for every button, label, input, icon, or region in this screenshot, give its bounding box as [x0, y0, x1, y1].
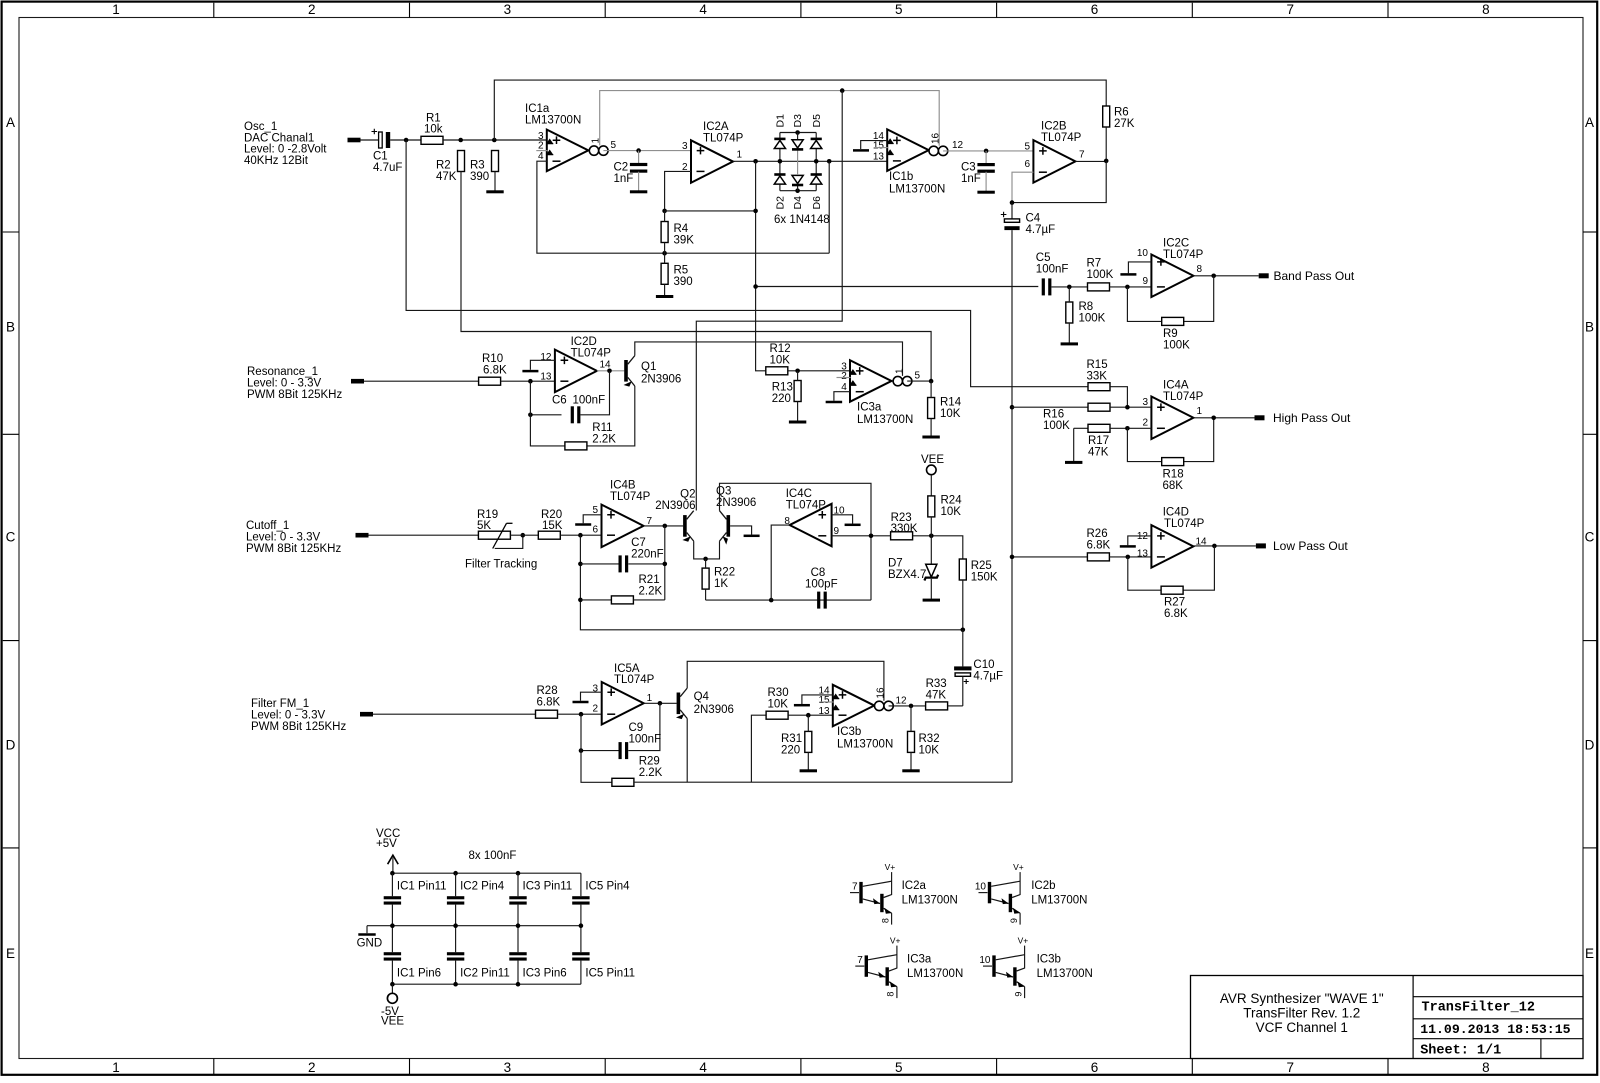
wire IC3a output	[907, 380, 931, 382]
diode D2	[774, 173, 785, 176]
wire IC2A inverting input to R4	[665, 171, 691, 211]
svg-text:DAC Chanal1: DAC Chanal1	[244, 132, 314, 144]
svg-text:IC2 Pin11: IC2 Pin11	[460, 967, 510, 979]
svg-text:IC2a: IC2a	[902, 880, 927, 892]
wire IC3b output	[889, 705, 926, 707]
svg-text:2: 2	[538, 140, 544, 151]
resistor R4	[661, 222, 668, 243]
svg-text:8: 8	[1482, 1060, 1490, 1075]
node Q1 base junction	[607, 369, 612, 374]
node C6 left junction	[528, 413, 533, 418]
wire IC4C plus ground	[832, 515, 853, 524]
wire IC2D input vertical	[530, 381, 565, 446]
wire R26 to IC4D	[1109, 556, 1151, 558]
svg-text:1: 1	[112, 1060, 120, 1075]
wire C4 frequency bus vertical	[1011, 230, 1013, 782]
svg-text:IC2C: IC2C	[1163, 237, 1189, 249]
svg-text:TransFilter_12: TransFilter_12	[1422, 1001, 1535, 1016]
svg-text:8x 100nF: 8x 100nF	[469, 850, 517, 862]
wire IC2B output	[1075, 160, 1106, 162]
wire R24 to node	[930, 517, 932, 536]
node mid bus junction	[516, 923, 521, 928]
resistor R22	[702, 568, 709, 589]
svg-text:10K: 10K	[940, 408, 961, 420]
svg-text:100K: 100K	[1079, 312, 1106, 324]
svg-text:TL074P: TL074P	[614, 674, 655, 686]
svg-text:E: E	[1585, 946, 1594, 961]
wire IC2C feedback R9	[1127, 287, 1161, 322]
buffer transistor pair IC2a	[850, 862, 895, 925]
resistor R26	[1087, 553, 1109, 561]
svg-text:TL074P: TL074P	[610, 491, 651, 503]
svg-text:4: 4	[538, 151, 544, 162]
svg-text:R21: R21	[639, 574, 660, 586]
wire C5 to R7	[1052, 286, 1088, 288]
svg-text:LM13700N: LM13700N	[837, 739, 893, 751]
wire Q4 emitter to frequency bus	[686, 719, 688, 783]
ground C3	[977, 191, 994, 194]
node C2 junction	[636, 148, 641, 153]
svg-text:15: 15	[873, 140, 885, 151]
svg-text:R25: R25	[971, 560, 992, 572]
svg-text:Filter FM_1: Filter FM_1	[251, 698, 309, 710]
svg-text:33K: 33K	[1087, 371, 1108, 383]
wire R10 to IC2D	[501, 380, 555, 382]
wire R21 C7 to output node	[664, 526, 666, 600]
node R8 junction	[1067, 285, 1072, 290]
svg-text:220: 220	[772, 393, 791, 405]
ground IC4B pin5	[575, 523, 591, 526]
node bias net junction	[840, 88, 845, 93]
output stub High Pass Out	[1255, 415, 1265, 420]
svg-text:IC5A: IC5A	[614, 663, 640, 675]
wire R17 ground leg	[1073, 428, 1075, 461]
ground IC3a pin4	[826, 401, 843, 404]
svg-text:C: C	[1585, 530, 1595, 545]
wire R4 node to cutoff node	[665, 210, 756, 212]
input stub Filter FM_1	[360, 712, 373, 717]
svg-text:10k: 10k	[424, 124, 443, 136]
svg-text:Level: 0 - 3.3V: Level: 0 - 3.3V	[246, 532, 320, 544]
ground R17	[1065, 461, 1082, 464]
wire R30 input leg	[751, 715, 766, 782]
transistor Q2 2N3906	[683, 515, 687, 537]
input stub Resonance_1	[351, 379, 364, 384]
capacitor C3	[985, 151, 987, 164]
wire C1 node down to HP summing line	[406, 140, 1088, 387]
node IC3b output junction	[909, 704, 914, 709]
node top bus junction	[390, 871, 395, 876]
svg-text:R28: R28	[537, 685, 558, 697]
wire IC2C output	[1193, 275, 1258, 277]
svg-text:R26: R26	[1087, 528, 1108, 540]
resistor R3	[492, 151, 499, 172]
resistor R2	[458, 151, 465, 172]
resistor R17	[1088, 424, 1110, 432]
svg-text:C6: C6	[552, 395, 567, 407]
svg-text:R4: R4	[674, 223, 689, 235]
svg-text:2: 2	[592, 703, 598, 714]
capacitor C7	[580, 563, 618, 565]
node mid bus junction	[579, 923, 584, 928]
frame row ticks	[3, 231, 19, 233]
buffer transistor pair IC3a buffer	[855, 936, 900, 999]
wire IC1a feedback line	[537, 161, 829, 253]
svg-text:6.8K: 6.8K	[1164, 608, 1188, 620]
wire C1 to R1	[390, 139, 421, 141]
svg-text:R5: R5	[674, 265, 689, 277]
svg-text:330K: 330K	[891, 523, 918, 535]
svg-text:100K: 100K	[1163, 340, 1190, 352]
wire bias net to Q2 collector	[696, 91, 842, 511]
node IC4B output junction	[663, 524, 668, 529]
node IC2C inverting junction	[1125, 285, 1130, 290]
wire Q3 collector loop	[720, 483, 872, 600]
svg-text:R13: R13	[772, 382, 793, 394]
ground R13	[789, 421, 806, 424]
wire R25 to bottom bus	[962, 580, 964, 630]
svg-text:TL074P: TL074P	[1041, 132, 1082, 144]
wire R1 to IC1a input	[443, 139, 547, 141]
svg-text:R30: R30	[768, 687, 789, 699]
resistor R12	[766, 367, 788, 375]
svg-text:4.7µF: 4.7µF	[973, 671, 1003, 683]
svg-text:C: C	[6, 530, 16, 545]
svg-text:7: 7	[1079, 149, 1085, 160]
wire R20 to IC4B	[560, 534, 601, 536]
svg-text:R15: R15	[1087, 359, 1108, 371]
wire IC3a minus ground	[834, 392, 850, 401]
node mid bus junction	[390, 923, 395, 928]
svg-text:D5: D5	[811, 114, 823, 128]
node bottom bus junction 0	[390, 982, 395, 987]
transistor Q4 2N3906	[677, 693, 681, 715]
svg-text:IC4A: IC4A	[1163, 379, 1189, 391]
svg-text:13: 13	[873, 152, 885, 163]
wire IC4D feedback R27	[1128, 557, 1161, 590]
svg-text:+5V: +5V	[376, 838, 397, 850]
svg-text:D6: D6	[811, 196, 823, 210]
node IC5A minus junction	[579, 712, 584, 717]
wire R15 to IC4A plus node	[1110, 387, 1127, 408]
svg-text:LM13700N: LM13700N	[857, 414, 913, 426]
wire R6 to IC2B output	[1105, 127, 1107, 161]
svg-text:R3: R3	[470, 159, 485, 171]
svg-text:10K: 10K	[768, 698, 789, 710]
svg-text:220nF: 220nF	[631, 549, 664, 561]
node R4 top	[662, 209, 667, 214]
svg-text:15: 15	[818, 695, 830, 706]
svg-text:IC2B: IC2B	[1041, 121, 1067, 133]
ground D7	[923, 599, 940, 602]
svg-text:12: 12	[540, 352, 552, 363]
wire IC4A feedback R18	[1127, 428, 1161, 461]
wire R23 to D7 node	[913, 536, 963, 559]
wire bus to R16	[1012, 406, 1088, 408]
node C1 output junction	[404, 138, 409, 143]
wire R17 input	[1074, 427, 1088, 429]
svg-text:7: 7	[1286, 2, 1294, 17]
wire diode mid to feedback	[828, 161, 830, 253]
capacitor C8	[817, 592, 820, 609]
capacitor decoupling bottom 2	[455, 926, 457, 953]
svg-text:C2: C2	[614, 161, 629, 173]
svg-text:VEE: VEE	[921, 454, 944, 466]
zener diode D7 BZX4.7	[930, 536, 932, 564]
svg-text:R22: R22	[714, 567, 735, 579]
svg-text:R1: R1	[426, 112, 441, 124]
svg-text:R17: R17	[1088, 435, 1109, 447]
svg-text:1: 1	[737, 150, 743, 161]
wire IC5A plus ground	[581, 692, 602, 701]
svg-text:IC2b: IC2b	[1031, 880, 1055, 892]
svg-text:Q4: Q4	[694, 691, 710, 703]
svg-text:A: A	[6, 115, 15, 130]
svg-text:12: 12	[1137, 531, 1149, 542]
diode D4	[792, 175, 803, 183]
svg-text:VCF Channel 1: VCF Channel 1	[1256, 1020, 1348, 1035]
svg-text:8: 8	[1197, 264, 1203, 275]
svg-text:10: 10	[1137, 248, 1149, 259]
input stub Cutoff_1	[356, 533, 369, 538]
svg-text:IC2D: IC2D	[571, 336, 597, 348]
svg-text:IC5 Pin11: IC5 Pin11	[585, 967, 635, 979]
resistor R5	[661, 263, 668, 284]
resistor R30	[766, 711, 788, 719]
svg-text:13: 13	[818, 706, 830, 717]
svg-text:C4: C4	[1026, 212, 1041, 224]
wire IC1a diode bias strikethrough	[536, 150, 547, 152]
svg-text:IC1a: IC1a	[525, 103, 550, 115]
wire IC2B feedback loop	[1012, 172, 1033, 202]
svg-text:10K: 10K	[770, 355, 791, 367]
svg-text:5: 5	[895, 1060, 903, 1075]
svg-text:R11: R11	[592, 422, 612, 434]
svg-text:4: 4	[699, 1060, 707, 1075]
svg-text:68K: 68K	[1163, 480, 1184, 492]
svg-text:220: 220	[781, 745, 800, 757]
node R2 junction	[458, 138, 463, 143]
svg-text:B: B	[1585, 320, 1594, 335]
svg-text:12: 12	[952, 140, 964, 151]
wire R3 to ground	[494, 172, 496, 191]
svg-text:R2: R2	[436, 159, 451, 171]
wire IC4C output loop	[771, 525, 790, 600]
resistor R27	[1161, 586, 1183, 594]
svg-text:1: 1	[1197, 406, 1203, 417]
svg-text:C7: C7	[631, 537, 646, 549]
svg-text:LM13700N: LM13700N	[1037, 968, 1093, 980]
svg-text:R14: R14	[940, 396, 962, 408]
node diode mid left	[778, 159, 783, 164]
wire IC5A input vertical	[581, 714, 612, 782]
wire R19 wiper tap	[495, 535, 523, 548]
svg-text:6.8K: 6.8K	[483, 365, 507, 377]
svg-text:IC4B: IC4B	[610, 480, 636, 492]
svg-text:Resonance_1: Resonance_1	[247, 366, 318, 378]
ground IC5A pin3	[573, 701, 589, 704]
wire R17 to IC4A minus	[1110, 427, 1151, 429]
capacitor C6	[530, 414, 561, 416]
svg-text:Band Pass Out: Band Pass Out	[1274, 269, 1355, 283]
svg-text:R33: R33	[926, 678, 947, 690]
node R16 bus junction	[1010, 405, 1015, 410]
diode D6	[811, 173, 822, 176]
resistor R11	[565, 442, 587, 450]
pin IC1a output circles	[589, 146, 598, 155]
svg-text:Level: 0 - 3.3V: Level: 0 - 3.3V	[251, 710, 325, 722]
resistor R33	[926, 702, 948, 710]
ground IC4C pin10	[845, 524, 861, 527]
svg-text:3: 3	[592, 684, 598, 695]
svg-text:6: 6	[1024, 159, 1030, 170]
svg-text:100K: 100K	[1087, 269, 1114, 281]
svg-text:IC4C: IC4C	[786, 488, 812, 500]
wire IC1a pin1 bias net	[600, 91, 940, 146]
svg-text:TransFilter Rev. 1.2: TransFilter Rev. 1.2	[1243, 1006, 1360, 1021]
resistor R24	[928, 496, 935, 517]
wire IC3a strikethrough	[837, 377, 851, 379]
svg-text:3: 3	[682, 141, 688, 152]
svg-text:D2: D2	[775, 196, 787, 210]
svg-text:7: 7	[852, 882, 858, 893]
svg-text:16: 16	[930, 132, 941, 144]
pin IC1b output circles	[929, 146, 938, 155]
power VEE -5V	[391, 984, 393, 993]
wire frequency bus to R26	[1012, 556, 1087, 558]
svg-text:1: 1	[647, 693, 653, 704]
wire stub to R19	[369, 534, 479, 536]
svg-text:100nF: 100nF	[573, 395, 606, 407]
svg-text:9: 9	[1009, 918, 1019, 923]
svg-text:8: 8	[880, 918, 890, 923]
svg-text:1nF: 1nF	[961, 173, 981, 185]
wire IC4D output	[1193, 545, 1256, 547]
node R21 left junction	[578, 598, 583, 603]
svg-text:7: 7	[1286, 1060, 1294, 1075]
wire R33 to C10	[948, 705, 963, 707]
svg-text:5: 5	[915, 370, 921, 381]
resistor R16	[1088, 403, 1110, 411]
wire IC4A output	[1193, 417, 1254, 419]
svg-text:6.8K: 6.8K	[1087, 539, 1111, 551]
node R26 bus junction	[1010, 555, 1015, 560]
svg-text:4.7uF: 4.7uF	[373, 162, 402, 174]
svg-text:LM13700N: LM13700N	[889, 183, 945, 195]
wire IC1a output to IC2A	[603, 150, 691, 152]
svg-text:1: 1	[894, 368, 905, 374]
pin IC3b output circles	[875, 701, 884, 710]
wire decoupling top bus	[392, 872, 581, 874]
node IC2A output junction	[753, 159, 758, 164]
svg-text:100nF: 100nF	[1036, 264, 1069, 276]
svg-text:1K: 1K	[714, 578, 728, 590]
node R4 R5 junction	[662, 251, 667, 256]
svg-text:R29: R29	[639, 756, 660, 768]
svg-text:BZX4.7: BZX4.7	[888, 569, 926, 581]
svg-text:R24: R24	[941, 495, 963, 507]
svg-text:Cutoff_1: Cutoff_1	[246, 520, 289, 532]
resistor R32	[908, 731, 915, 752]
svg-text:TL074P: TL074P	[1163, 249, 1204, 261]
ground IC4D pin12	[1120, 545, 1136, 548]
resistor R9	[1162, 317, 1184, 325]
wire IC5A output to Q4	[644, 702, 677, 704]
node bottom bus junction 1	[453, 982, 458, 987]
svg-text:R12: R12	[770, 343, 791, 355]
buffer transistor pair IC2b	[975, 862, 1024, 925]
wire IC1b plus input ground	[861, 141, 888, 149]
svg-text:2N3906: 2N3906	[641, 374, 681, 386]
svg-text:3: 3	[504, 2, 512, 17]
wire IC4B output to Q2	[644, 525, 684, 527]
svg-text:IC1 Pin6: IC1 Pin6	[397, 967, 441, 979]
node D7 junction	[929, 534, 934, 539]
svg-text:2: 2	[308, 1060, 316, 1075]
svg-text:R31: R31	[781, 733, 802, 745]
svg-text:PWM 8Bit 125KHz: PWM 8Bit 125KHz	[251, 721, 346, 733]
svg-text:Low Pass Out: Low Pass Out	[1273, 539, 1348, 553]
ground GND symbol	[366, 926, 368, 934]
wire stub to C1	[361, 139, 379, 141]
svg-text:5: 5	[1024, 141, 1030, 152]
svg-text:Q3: Q3	[716, 485, 731, 497]
svg-text:IC1 Pin11: IC1 Pin11	[397, 880, 447, 892]
wire R12 to IC3a	[788, 370, 850, 372]
svg-text:10K: 10K	[919, 745, 940, 757]
svg-text:100K: 100K	[1043, 420, 1070, 432]
svg-text:LM13700N: LM13700N	[902, 895, 958, 907]
node R22 top junction	[703, 557, 708, 562]
svg-text:VEE: VEE	[381, 1016, 404, 1028]
svg-text:C1: C1	[373, 151, 388, 163]
svg-text:7: 7	[857, 955, 863, 966]
svg-text:IC2 Pin4: IC2 Pin4	[460, 880, 505, 892]
svg-text:9: 9	[1142, 276, 1148, 287]
wire IC2A output to diode network	[733, 160, 887, 162]
node band pass tap	[753, 284, 758, 289]
svg-text:Sheet: 1/1: Sheet: 1/1	[1420, 1044, 1501, 1059]
svg-text:3: 3	[504, 1060, 512, 1075]
node R31 junction	[806, 713, 811, 718]
svg-text:6.8K: 6.8K	[537, 696, 561, 708]
node C9 left junction	[579, 748, 584, 753]
output stub Band Pass Out	[1259, 273, 1269, 278]
resistor R14	[928, 398, 935, 419]
ground R3	[486, 190, 503, 193]
pin IC3a output circles	[893, 376, 902, 385]
power VEE arrow	[927, 465, 937, 475]
wire diode network bottom bus	[780, 190, 816, 192]
capacitor decoupling bottom 4	[580, 926, 582, 953]
svg-text:IC3a: IC3a	[907, 954, 932, 966]
svg-text:Filter Tracking: Filter Tracking	[465, 559, 537, 571]
svg-text:47K: 47K	[926, 690, 947, 702]
wire C10 to R33 line	[962, 676, 964, 706]
wire R16 to IC4A	[1110, 406, 1151, 408]
svg-text:390: 390	[470, 171, 489, 183]
svg-text:2.2K: 2.2K	[639, 767, 663, 779]
node IC4A plus junction	[1125, 405, 1130, 410]
node IC3a output junction	[929, 379, 934, 384]
ground IC2C pin10	[1120, 273, 1136, 276]
svg-text:IC1b: IC1b	[889, 171, 913, 183]
svg-text:B: B	[6, 320, 15, 335]
svg-text:AVR Synthesizer "WAVE 1": AVR Synthesizer "WAVE 1"	[1220, 991, 1384, 1006]
ground IC1b pin14	[853, 149, 869, 152]
capacitor decoupling top 3	[517, 873, 519, 896]
resistor R7	[1088, 283, 1110, 291]
